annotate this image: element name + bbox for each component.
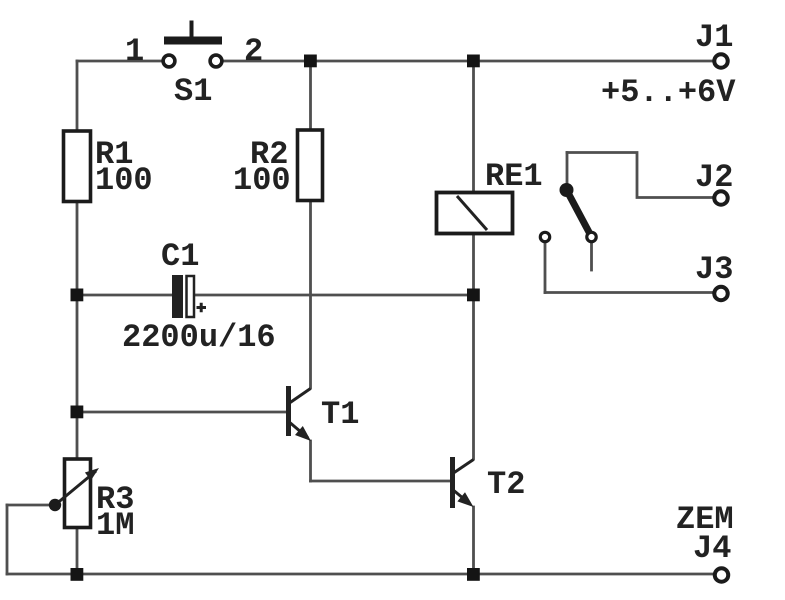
wire RE1 bottom to node row: [472, 234, 475, 295]
resistor R1 body: [64, 131, 91, 202]
svg-text:100: 100: [233, 162, 291, 199]
wire contact pivot lead: [566, 153, 569, 185]
wire T1 emitter down: [309, 441, 312, 481]
svg-text:2: 2: [244, 33, 263, 70]
potentiometer R3 wiper arrow: [85, 468, 99, 481]
transistor T2 collector stroke: [452, 460, 474, 475]
switch S1 actuator bar: [164, 37, 222, 45]
svg-text:J2: J2: [695, 159, 733, 196]
wire C1 left (left rail to C1): [77, 294, 172, 297]
wire T2 emitter down to bottom wire: [472, 507, 475, 574]
svg-text:1: 1: [125, 33, 144, 70]
potentiometer R3 body: [65, 459, 91, 528]
wire node row down to T2 collector: [472, 295, 475, 459]
transistor T1 collector stroke: [288, 389, 311, 405]
wire relay branch top (top wire to RE1): [472, 61, 475, 192]
junction node relay branch / C1 wire: [467, 289, 480, 302]
junction node top at relay branch: [467, 55, 480, 68]
wire T1 emitter to T2 base: [311, 480, 451, 483]
potentiometer R3 wiper stroke: [55, 471, 96, 505]
junction node top at R2 branch: [304, 55, 317, 68]
resistor R2 body: [298, 130, 323, 201]
relay contact armature: [566, 189, 590, 234]
capacitor C1 right plate: [187, 276, 195, 317]
junction node left rail / T1 base wire: [71, 406, 84, 419]
wire armature tail: [590, 243, 593, 270]
wire NC contact down: [544, 243, 547, 293]
relay RE1 coil box: [437, 193, 513, 234]
relay contact NC terminal circle: [540, 232, 549, 241]
wire bottom rail to J4: [7, 573, 713, 576]
wire left rail middle (R1 to R3): [76, 203, 79, 458]
terminal J4 circle: [715, 568, 729, 582]
relay contact NO terminal circle: [587, 232, 596, 241]
junction node left rail / C1 wire: [71, 289, 84, 302]
svg-text:S1: S1: [174, 73, 212, 110]
transistor T1 emitter arrow: [295, 426, 311, 441]
wire left rail upper (top wire to R1): [76, 61, 79, 131]
capacitor C1 plus sign: [197, 303, 207, 312]
terminal J2 circle: [714, 191, 728, 205]
potentiometer R3 wiper dot: [49, 499, 61, 511]
wire left rail lower (R3 to bottom wire): [76, 528, 79, 574]
svg-text:T1: T1: [321, 396, 359, 433]
wire top-left from left rail to S1 pin1: [77, 60, 161, 63]
transistor T1 base bar: [286, 386, 291, 436]
switch S1 actuator stem: [190, 21, 194, 38]
transistor T1 emitter stroke: [288, 421, 308, 438]
transistor T2 emitter arrow: [457, 492, 473, 507]
junction node left rail / bottom wire: [71, 568, 84, 581]
svg-text:J3: J3: [695, 251, 733, 288]
junction node T2 emitter / bottom wire: [467, 568, 480, 581]
svg-text:+5..+6V: +5..+6V: [601, 74, 736, 111]
relay contact pivot dot: [560, 183, 574, 197]
switch S1 pin2 circle: [210, 55, 222, 67]
wire top from S1 pin2 to J1: [224, 60, 712, 63]
svg-text:100: 100: [95, 162, 153, 199]
svg-text:C1: C1: [161, 238, 199, 275]
wire R2 bottom to T1 collector: [309, 201, 312, 388]
relay RE1 coil diagonal: [457, 196, 487, 230]
wire T1 base (left rail to T1): [77, 411, 286, 414]
svg-text:T2: T2: [487, 466, 525, 503]
capacitor C1 left plate: [172, 275, 183, 318]
svg-text:RE1: RE1: [485, 158, 543, 195]
wire R3 wiper left down to bottom wire: [6, 505, 9, 574]
switch S1 pin1 circle: [163, 55, 175, 67]
wire relay contact common to J2: [567, 153, 712, 198]
wire NC contact to J3: [545, 291, 712, 294]
wire R2 branch top (top wire to R2): [309, 61, 312, 129]
svg-text:1M: 1M: [96, 507, 134, 544]
terminal J3 circle: [714, 287, 728, 301]
svg-text:J1: J1: [695, 19, 733, 56]
wire R3 wiper to left: [7, 504, 55, 507]
transistor T2 base bar: [450, 457, 455, 508]
wire C1 right (C1 to relay branch): [195, 294, 474, 297]
svg-text:2200u/16: 2200u/16: [122, 319, 276, 356]
svg-text:J4: J4: [693, 530, 731, 567]
transistor T2 emitter stroke: [452, 489, 470, 504]
terminal J1 circle: [714, 54, 728, 68]
